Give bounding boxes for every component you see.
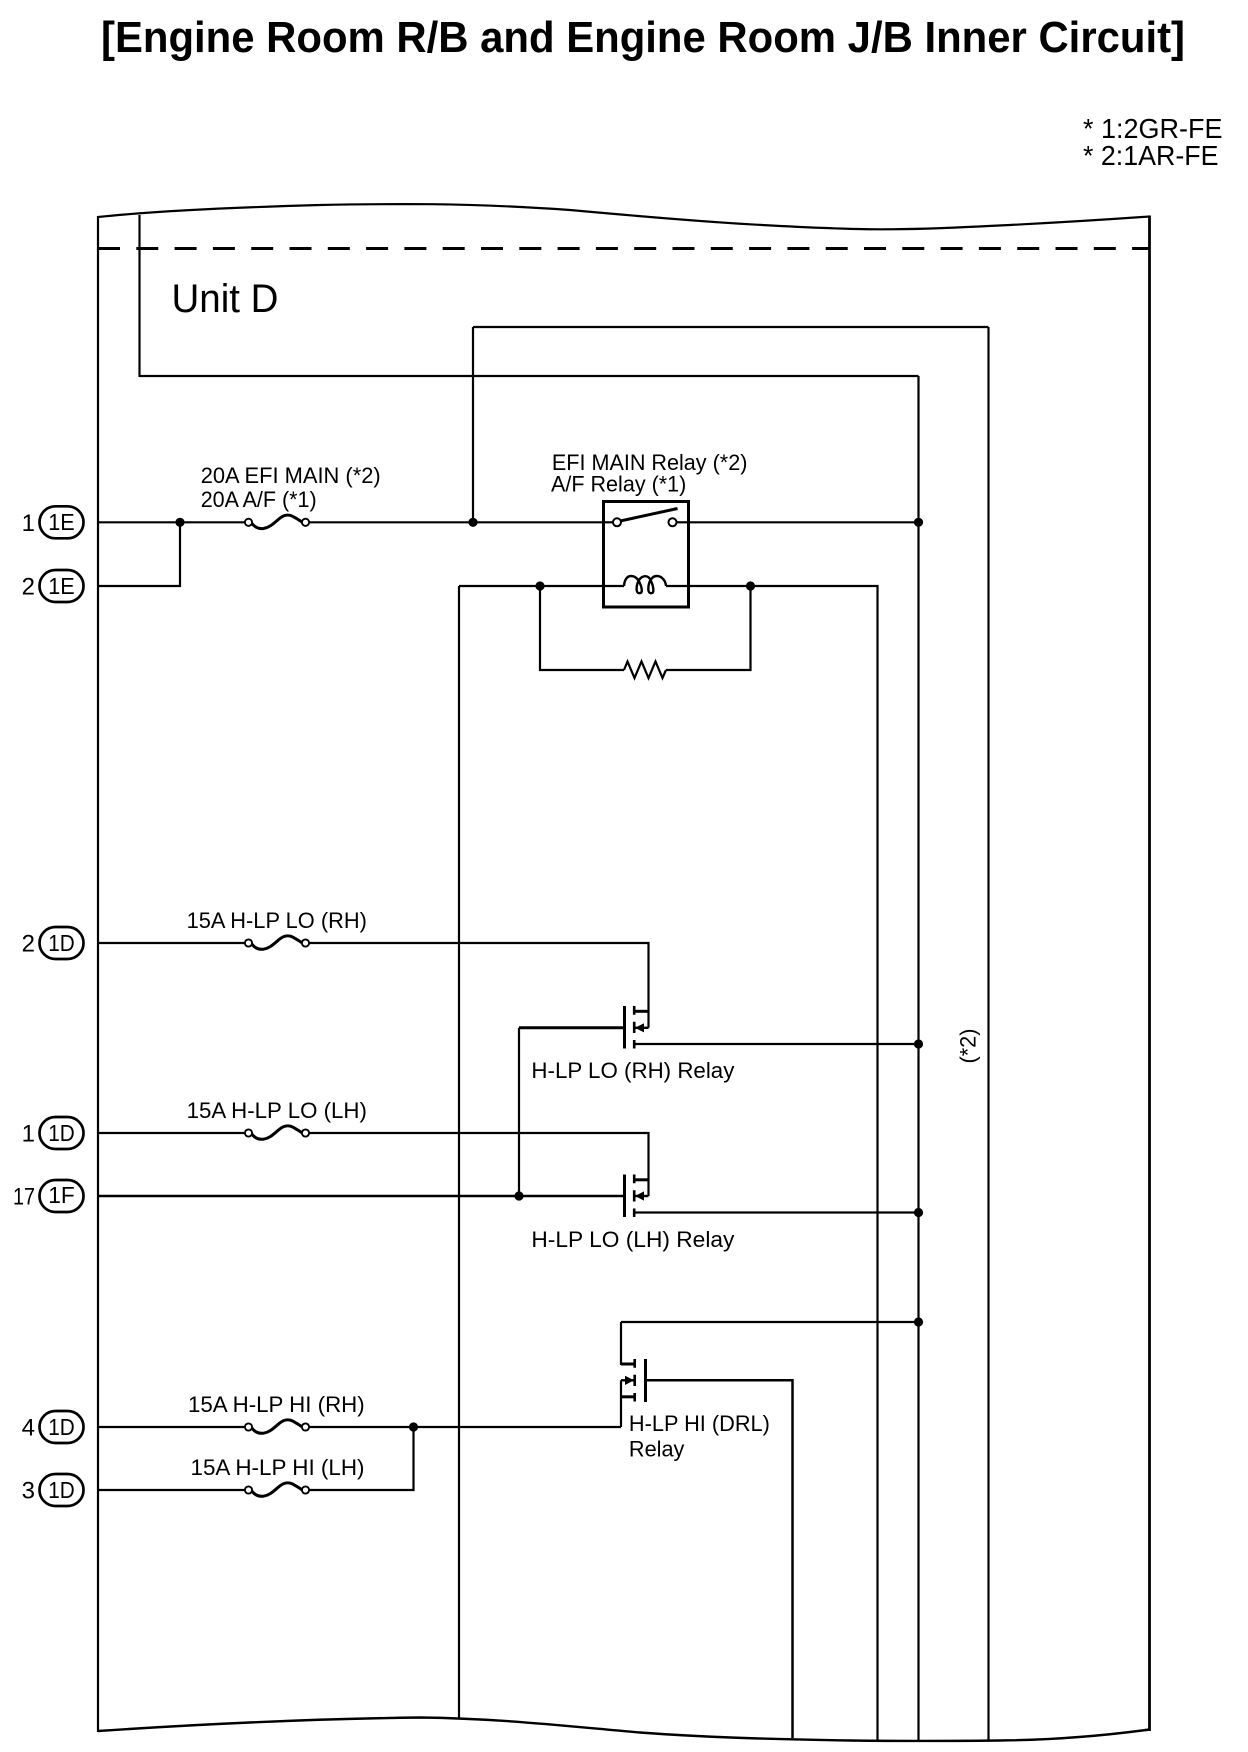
junction at (540,586) [535, 581, 544, 590]
fuse F4 15A left terminal [245, 1423, 252, 1430]
relay U1 switch blade [621, 509, 678, 521]
connector 17(1F) oval [40, 1180, 84, 1212]
transistor Q1 gate lead [519, 1026, 623, 1029]
junction at (750,586) [746, 581, 755, 590]
unit D enclosure left border [97, 216, 99, 1732]
transistor Q1 source lead to x=918 [634, 1043, 918, 1045]
wire: vertical x=459 down to bottom edge [458, 586, 460, 1719]
connector 1(1E) oval [40, 506, 84, 538]
wire: resistor loop left leg [540, 586, 624, 670]
wire: coil row y=586 from x=459 to relay box [459, 585, 604, 587]
svg-text:17: 17 [13, 1184, 35, 1211]
fuse F3 15A right terminal [302, 1129, 309, 1136]
unit D enclosure top torn edge [98, 204, 1150, 229]
unit D enclosure bottom torn edge [98, 1718, 1150, 1741]
relay U1 box [604, 502, 689, 608]
svg-text:1D: 1D [48, 1120, 75, 1146]
wire: row 1D-3 y=1490 left segment [99, 1489, 245, 1491]
svg-text:H-LP LO (RH) Relay: H-LP LO (RH) Relay [531, 1058, 735, 1083]
connector 2(1E) oval [40, 570, 84, 602]
junction at (413,1427) [409, 1422, 418, 1431]
svg-text:1E: 1E [48, 509, 75, 535]
svg-text:3: 3 [22, 1478, 35, 1505]
wire: resistor loop right leg [666, 586, 751, 670]
wire: row y=1490 up to 4(1D) wire [309, 1427, 414, 1490]
transistor Q3 body line [621, 1379, 635, 1381]
transistor Q1 body line [634, 1027, 648, 1029]
unit D enclosure right border [1148, 216, 1151, 1732]
resistor R1 zigzag [624, 662, 666, 679]
svg-text:20A A/F (*1): 20A A/F (*1) [201, 487, 317, 512]
svg-text:2: 2 [22, 574, 35, 601]
svg-text:1D: 1D [48, 930, 75, 956]
wire: 2(1E) branch y=586 [99, 522, 180, 586]
fuse F1 element [252, 515, 302, 528]
wire: row 1D-4 y=1427 left segment [99, 1426, 245, 1428]
wire: inner vertical stub x=140 [138, 215, 140, 377]
svg-text:1F: 1F [48, 1182, 75, 1208]
svg-text:15A H-LP HI (LH): 15A H-LP HI (LH) [191, 1455, 365, 1480]
wire: coil row from box to x=877 then down [689, 586, 878, 1740]
fuse F1 20A right terminal [302, 519, 309, 526]
junction at (918,522) [914, 518, 923, 527]
junction at (473,522) [468, 518, 477, 527]
junction at (519,1196) [514, 1191, 523, 1200]
wire: stub switch right pin to box edge [676, 521, 689, 523]
junction at (918,1044) [914, 1039, 923, 1048]
wire: horizontal bus y=327 x=473 to x=988 [473, 326, 989, 328]
svg-text:Unit D: Unit D [172, 277, 279, 321]
transistor Q2 gate bar [623, 1175, 626, 1218]
svg-text:1D: 1D [48, 1414, 75, 1440]
svg-text:4: 4 [22, 1415, 35, 1442]
transistor Q1 channel segments [633, 1006, 636, 1049]
fuse F2 element [252, 936, 302, 949]
fuse F3 15A left terminal [245, 1129, 252, 1136]
svg-text:2: 2 [22, 931, 35, 958]
svg-text:* 2:1AR-FE: * 2:1AR-FE [1083, 140, 1219, 171]
svg-text:[Engine Room R/B and Engine Ro: [Engine Room R/B and Engine Room J/B Inn… [101, 13, 1185, 62]
wire: vertical x=918 from y=376 down to bottom edge [917, 376, 919, 1741]
connector 3(1D) oval [40, 1474, 84, 1506]
svg-text:15A H-LP LO (RH): 15A H-LP LO (RH) [187, 908, 367, 933]
wire: vertical x=519 gate feed down to 1F wire [518, 1028, 520, 1196]
connector 1(1D) oval [40, 1117, 84, 1149]
wire: stub box edge to switch left pin [604, 521, 615, 523]
transistor Q3 drain tab [621, 1363, 636, 1366]
svg-text:(*2): (*2) [956, 1029, 981, 1064]
transistor Q2 drain tab [633, 1178, 649, 1181]
transistor Q2 source lead to x=918 [634, 1211, 918, 1213]
relay U1 switch left pin [613, 518, 621, 526]
fuse F4 element [252, 1420, 302, 1433]
svg-text:1: 1 [22, 510, 35, 537]
dashed separator line [98, 247, 1149, 250]
fuse F2 15A left terminal [245, 939, 252, 946]
wire: vertical x=988 from y=327 down to bottom edge [987, 327, 989, 1741]
wire: row y=1133 from fuse to transistor Q2 drain [309, 1133, 649, 1196]
relay U1 switch right pin [669, 518, 677, 526]
transistor Q2 body arrow [635, 1191, 644, 1200]
transistor Q3 gate lead to x=792 [647, 1380, 793, 1738]
fuse F1 20A left terminal [245, 519, 252, 526]
fuse F4 15A right terminal [302, 1423, 309, 1430]
wire: main row y=522 from relay box to x=918 [689, 521, 919, 523]
svg-text:A/F Relay (*1): A/F Relay (*1) [551, 471, 686, 496]
transistor Q1 drain tab [633, 1010, 649, 1013]
svg-text:1D: 1D [48, 1477, 75, 1503]
wire: coil feed inside box left [604, 585, 625, 587]
wire: horizontal y=1322 from Q3 drain to x=918 [621, 1321, 919, 1323]
svg-text:15A H-LP HI (RH): 15A H-LP HI (RH) [188, 1392, 365, 1417]
wire: vertical x=473 from y=327 to main wire [472, 327, 474, 522]
wire: main row 1E-1 y=522 left segment [99, 521, 245, 523]
connector 4(1D) oval [40, 1411, 84, 1443]
wire: horizontal bus y=376 to x=918 [140, 375, 919, 377]
transistor Q2 channel segments [633, 1175, 636, 1218]
wire: row 1D-2 y=943 left segment [99, 942, 245, 944]
svg-text:H-LP LO (LH) Relay: H-LP LO (LH) Relay [531, 1227, 735, 1252]
connector 2(1D) oval [40, 927, 84, 959]
transistor Q1 gate bar [623, 1006, 626, 1049]
wire: row y=943 from fuse right to transistor Q1 drain [309, 943, 649, 1028]
transistor Q1 body arrow [635, 1023, 644, 1032]
fuse F5 15A left terminal [245, 1486, 252, 1493]
transistor Q3 gate bar [644, 1359, 647, 1402]
wire: vertical x=621 down to Q3 drain tab [620, 1322, 622, 1365]
svg-text:Relay: Relay [629, 1436, 685, 1461]
fuse F5 element [252, 1483, 302, 1496]
junction at (918,1322) [914, 1317, 923, 1326]
svg-text:H-LP HI (DRL): H-LP HI (DRL) [629, 1411, 770, 1436]
wire: vertical x=621 from body down to 4(1D) wire [620, 1380, 622, 1427]
transistor Q2 body line [634, 1195, 648, 1197]
fuse F3 element [252, 1126, 302, 1139]
svg-text:15A H-LP LO (LH): 15A H-LP LO (LH) [187, 1098, 367, 1123]
svg-text:1E: 1E [48, 573, 75, 599]
transistor Q3 source tab [621, 1395, 636, 1398]
transistor Q3 channel segments [633, 1359, 636, 1402]
svg-text:1: 1 [22, 1121, 35, 1148]
wire: row 1F-17 y=1196 to transistor Q2 gate [99, 1195, 623, 1198]
junction at (918,1212) [914, 1208, 923, 1217]
relay U1 coil [624, 576, 666, 593]
wire: row 1D-1 y=1133 left segment [99, 1132, 245, 1134]
transistor Q3 body arrow [625, 1376, 634, 1385]
wire: main row y=522 from fuse to relay box [309, 521, 603, 523]
junction at (180,522) [175, 518, 184, 527]
wire: coil to box right edge [666, 585, 689, 587]
fuse F5 15A right terminal [302, 1486, 309, 1493]
svg-text:20A EFI MAIN (*2): 20A EFI MAIN (*2) [201, 463, 381, 488]
fuse F2 15A right terminal [302, 939, 309, 946]
wire: row y=1427 from fuse to transistor Q3 [309, 1426, 621, 1428]
